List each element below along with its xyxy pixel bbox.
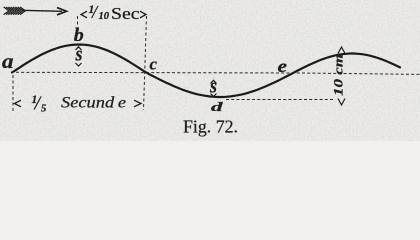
svg-text:10: 10 bbox=[99, 11, 110, 22]
svg-text:d: d bbox=[211, 100, 224, 114]
svg-text:Secund e: Secund e bbox=[61, 95, 126, 112]
svg-text:5: 5 bbox=[41, 104, 46, 115]
svg-text:10 cm: 10 cm bbox=[332, 54, 346, 96]
svg-text:e: e bbox=[278, 56, 288, 76]
svg-text:s: s bbox=[75, 44, 83, 66]
svg-text:Fig. 72.: Fig. 72. bbox=[183, 117, 238, 137]
svg-text:Sec: Sec bbox=[111, 4, 140, 23]
svg-text:s: s bbox=[209, 75, 217, 97]
svg-text:c: c bbox=[150, 55, 158, 74]
svg-text:a: a bbox=[2, 49, 14, 73]
